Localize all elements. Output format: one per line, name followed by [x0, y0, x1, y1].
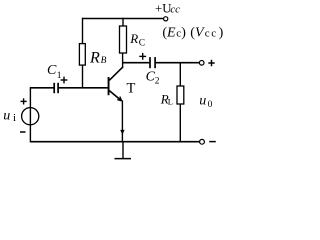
svg-text:): )	[181, 25, 186, 40]
svg-text:2: 2	[155, 76, 160, 86]
label T	[127, 81, 136, 97]
wire emitter vertical	[121, 100, 123, 141]
svg-text:cc: cc	[170, 3, 180, 15]
output terminal top	[199, 61, 204, 66]
transistor T	[108, 67, 123, 101]
svg-text:R: R	[129, 31, 138, 46]
source ui	[22, 108, 39, 125]
wire input vertical upper	[29, 88, 31, 108]
svg-text:B: B	[101, 56, 107, 66]
svg-text:C: C	[47, 63, 57, 78]
wire RB bottom lead	[82, 65, 84, 87]
ground	[115, 142, 132, 159]
svg-text:E: E	[166, 25, 176, 40]
svg-text:c: c	[205, 27, 210, 39]
svg-text:V: V	[195, 25, 205, 40]
wire RL bottom lead	[179, 104, 181, 142]
wire through source	[29, 108, 31, 125]
capacitor C1	[54, 83, 58, 93]
capacitor C1 plus mark	[61, 77, 68, 84]
supply terminal	[164, 17, 168, 21]
resistor RB	[79, 44, 85, 66]
svg-text:i: i	[13, 112, 16, 124]
svg-text:u: u	[3, 108, 10, 123]
wire RB top lead	[82, 18, 84, 44]
label (Ec)(Vcc)	[162, 25, 223, 40]
svg-text:0: 0	[208, 100, 213, 110]
svg-text:u: u	[199, 94, 206, 109]
label RL	[160, 92, 173, 107]
capacitor C2 plus mark	[139, 53, 146, 60]
label RC	[129, 31, 145, 48]
label ui	[3, 108, 16, 124]
svg-text:L: L	[168, 97, 173, 107]
label RB	[89, 49, 107, 66]
svg-text:+U: +U	[155, 1, 171, 15]
svg-text:1: 1	[57, 71, 62, 81]
resistor RC	[120, 26, 127, 53]
output plus mark	[208, 60, 214, 66]
output minus mark	[209, 141, 216, 143]
wire collector vertical	[122, 53, 124, 68]
top supply rail wire	[82, 18, 164, 20]
wire collector node to C2	[123, 62, 150, 64]
capacitor C2	[150, 57, 155, 68]
bottom rail wire	[30, 141, 200, 143]
output terminal bottom	[200, 139, 205, 144]
label u0	[199, 94, 212, 110]
source plus mark	[21, 98, 27, 104]
wire RC top lead	[122, 18, 124, 26]
wire RL top lead	[179, 63, 181, 86]
wire input to C1	[30, 87, 54, 89]
wire C2 to output terminal	[156, 62, 199, 64]
svg-text:): )	[219, 25, 224, 40]
label +Ucc	[155, 1, 180, 15]
wire base	[59, 87, 108, 89]
resistor RL	[177, 86, 184, 104]
label C1	[47, 63, 62, 81]
source minus mark	[20, 131, 26, 133]
wire input vertical lower	[29, 125, 31, 142]
svg-text:T: T	[127, 81, 136, 97]
svg-text:C: C	[139, 39, 145, 49]
svg-text:R: R	[89, 49, 100, 66]
emitter current arrow	[120, 130, 124, 135]
label C2	[146, 70, 160, 87]
svg-text:c: c	[211, 27, 216, 39]
